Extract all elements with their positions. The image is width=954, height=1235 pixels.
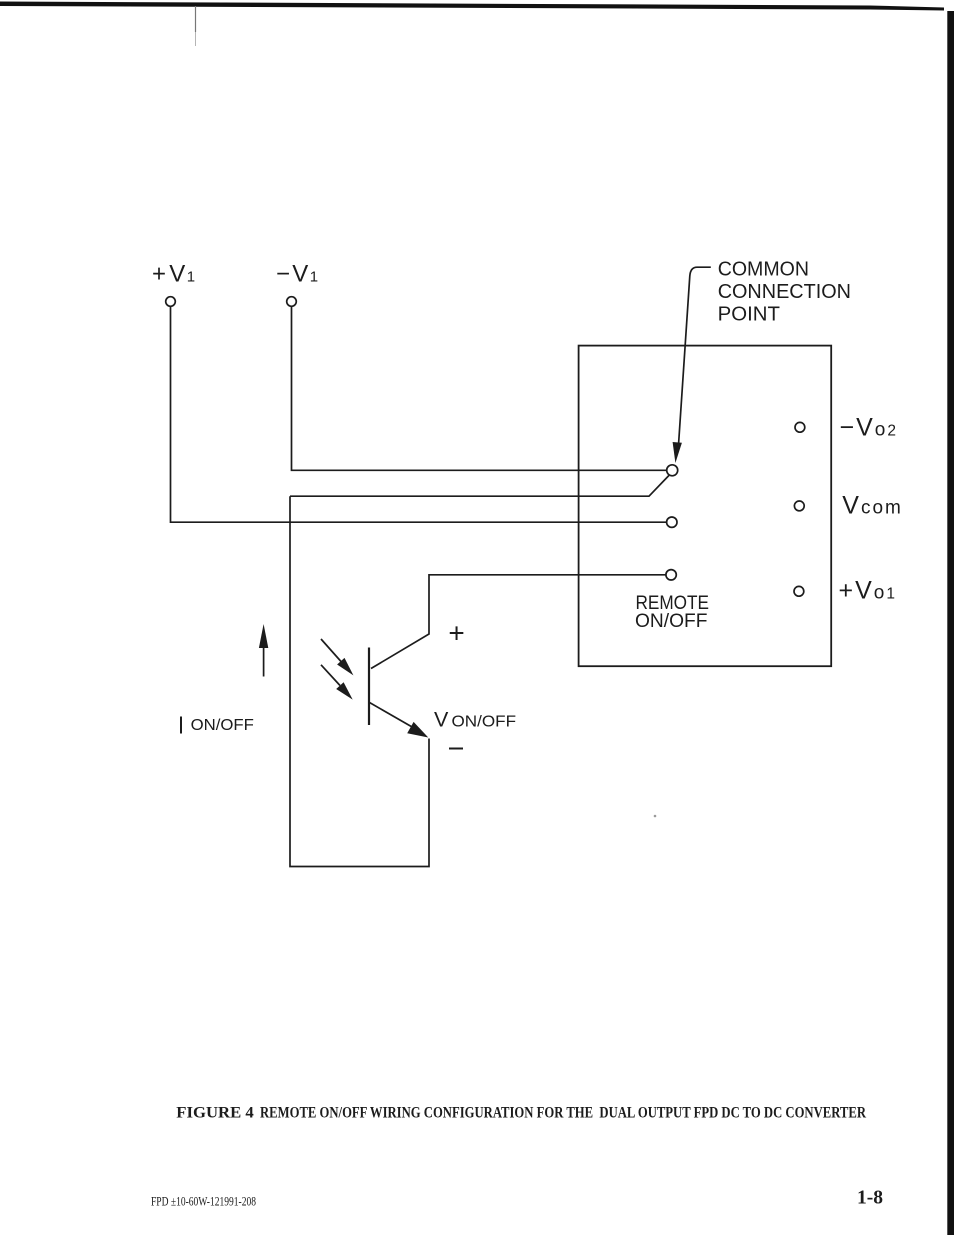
svg-text:FIGURE 4: FIGURE 4 bbox=[176, 1105, 254, 1122]
svg-text:POINT: POINT bbox=[718, 303, 780, 325]
svg-text:−Vo2: −Vo2 bbox=[840, 414, 898, 442]
svg-text:COMMON: COMMON bbox=[718, 259, 809, 281]
svg-text:1-8: 1-8 bbox=[857, 1188, 883, 1209]
svg-text:CONNECTION: CONNECTION bbox=[718, 281, 851, 303]
svg-text:Vcom: Vcom bbox=[842, 492, 903, 520]
svg-text:ON/OFF: ON/OFF bbox=[191, 717, 255, 734]
svg-text:REMOTE ON/OFF WIRING CONFIGURA: REMOTE ON/OFF WIRING CONFIGURATION FOR T… bbox=[260, 1105, 867, 1122]
svg-text:+Vo1: +Vo1 bbox=[839, 577, 897, 605]
svg-text:+V1: +V1 bbox=[152, 261, 195, 288]
svg-text:−V1: −V1 bbox=[276, 261, 318, 288]
svg-text:FPD ±10-60W-121991-208: FPD ±10-60W-121991-208 bbox=[151, 1195, 256, 1209]
svg-text:ON/OFF: ON/OFF bbox=[635, 611, 708, 632]
svg-text:+: + bbox=[448, 618, 464, 649]
svg-text:ON/OFF: ON/OFF bbox=[452, 714, 517, 731]
svg-text:V: V bbox=[434, 708, 449, 732]
